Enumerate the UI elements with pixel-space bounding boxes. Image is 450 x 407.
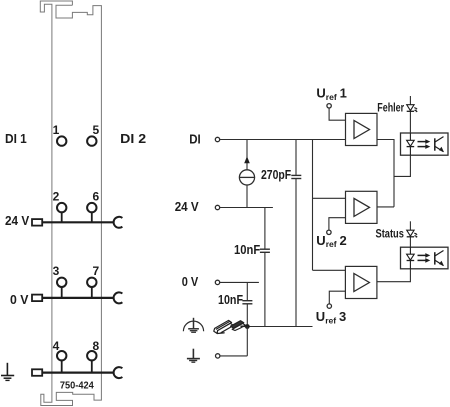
LED Fehler bbox=[407, 105, 418, 113]
clamp contact 24V bbox=[114, 217, 123, 228]
LED Status bbox=[407, 230, 418, 238]
pin 4 bbox=[57, 351, 66, 360]
light arrows X2 bbox=[418, 253, 431, 263]
svg-text:5: 5 bbox=[92, 123, 99, 137]
capacitor 270pF bbox=[295, 140, 297, 175]
terminal box 0V bbox=[32, 295, 42, 302]
phototransistor X2 bbox=[435, 251, 444, 266]
svg-text:1: 1 bbox=[53, 123, 60, 137]
pin 8 bbox=[87, 351, 96, 360]
terminal Uref3 bbox=[327, 304, 331, 308]
wire Uref1 to U1 bbox=[329, 108, 345, 120]
terminal DI bbox=[215, 137, 219, 141]
svg-text:0 V: 0 V bbox=[10, 293, 29, 307]
svg-text:2: 2 bbox=[53, 189, 60, 203]
wire U1 output bbox=[377, 140, 394, 207]
light arrows X1 bbox=[418, 139, 431, 149]
svg-text:10nF: 10nF bbox=[234, 243, 261, 257]
wire 0V bbox=[220, 281, 259, 283]
svg-text:10nF: 10nF bbox=[218, 293, 243, 307]
LED inside X2 bbox=[407, 247, 415, 269]
current source Q1 vertical wire bbox=[246, 140, 248, 170]
wire pin3 stem bbox=[61, 287, 63, 298]
wire pin4 stem bbox=[61, 360, 63, 372]
ground symbol left bbox=[1, 363, 14, 381]
svg-text:DI 2: DI 2 bbox=[120, 132, 146, 146]
pin 7 bbox=[87, 278, 96, 287]
optocoupler X2 bbox=[401, 247, 449, 269]
svg-text:3: 3 bbox=[53, 264, 60, 278]
svg-text:7: 7 bbox=[92, 264, 99, 278]
wire 0V rail bbox=[42, 297, 114, 299]
wire opto2 anode bbox=[409, 221, 411, 247]
terminal 0V bbox=[215, 280, 219, 284]
terminal Uref2 bbox=[327, 230, 331, 234]
current source arrow bbox=[244, 156, 250, 163]
ground symbol lower bbox=[187, 349, 200, 363]
pin 5 bbox=[87, 136, 96, 145]
capacitor 10nF lower bbox=[246, 282, 248, 300]
phototransistor X1 bbox=[435, 137, 444, 152]
LED inside X1 bbox=[407, 133, 415, 155]
svg-text:270pF: 270pF bbox=[261, 168, 291, 182]
wire shield bus bbox=[236, 326, 313, 328]
wire pin8 stem bbox=[91, 360, 93, 372]
op-amp U1 bbox=[346, 113, 378, 145]
wire Uref3 to U3 bbox=[329, 291, 345, 304]
terminal Uref1 bbox=[327, 104, 331, 108]
svg-text:0 V: 0 V bbox=[182, 274, 199, 289]
wire 24V rail bbox=[42, 221, 114, 223]
wire U3 output to opto2 bbox=[377, 269, 411, 282]
wire opto1 anode bbox=[409, 96, 411, 133]
wire earth rail bbox=[42, 372, 114, 374]
capacitor 10nF upper bbox=[264, 208, 266, 249]
svg-text:Status: Status bbox=[376, 227, 405, 241]
current source circle bbox=[239, 170, 254, 185]
wire U2 output bbox=[377, 206, 394, 208]
terminal box earth bbox=[32, 369, 42, 376]
wire pin2 stem bbox=[61, 212, 63, 222]
svg-text:Uref 2: Uref 2 bbox=[316, 233, 346, 249]
earth arc symbol bbox=[183, 318, 203, 333]
pin 6 bbox=[87, 203, 96, 212]
wire junction to opto1 bbox=[394, 155, 410, 176]
terminal 24V bbox=[215, 205, 219, 209]
op-amp U3 bbox=[345, 266, 377, 298]
module outline top profile bbox=[40, 1, 101, 406]
pin 2 bbox=[57, 203, 66, 212]
pin 1 bbox=[57, 136, 66, 145]
wire Uref2 to U2 bbox=[329, 218, 346, 230]
wire pin6 stem bbox=[91, 212, 93, 222]
wire DI input bbox=[220, 139, 346, 141]
svg-text:6: 6 bbox=[92, 189, 99, 203]
wire 24V bbox=[220, 207, 273, 209]
node shield junction bbox=[245, 324, 250, 329]
clamp contact 0V bbox=[114, 292, 123, 303]
wire bus to amplifier inputs bbox=[312, 140, 314, 271]
svg-text:4: 4 bbox=[53, 339, 60, 353]
wire earth terminal to shield bbox=[216, 354, 220, 358]
pin 3 bbox=[57, 278, 66, 287]
svg-text:24 V: 24 V bbox=[175, 199, 199, 214]
clamp contact earth bbox=[114, 367, 123, 378]
svg-text:750-424: 750-424 bbox=[60, 381, 94, 392]
wire pin7 stem bbox=[91, 287, 93, 298]
optocoupler X1 bbox=[401, 133, 449, 155]
svg-text:DI 1: DI 1 bbox=[5, 132, 27, 146]
svg-text:24 V: 24 V bbox=[5, 214, 30, 228]
op-amp U2 bbox=[346, 191, 378, 223]
svg-text:Fehler: Fehler bbox=[377, 100, 404, 114]
svg-text:DI: DI bbox=[189, 131, 201, 146]
terminal box 24V bbox=[32, 219, 42, 226]
svg-text:Uref 1: Uref 1 bbox=[316, 85, 346, 101]
shield clamp symbol bbox=[214, 320, 246, 333]
svg-text:Uref 3: Uref 3 bbox=[316, 309, 346, 325]
